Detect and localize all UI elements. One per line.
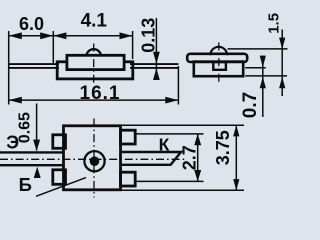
dome weld bump (side view) bbox=[86, 49, 101, 55]
package body (end view) bbox=[194, 62, 243, 77]
wire: right lead top edge bbox=[130, 63, 178, 65]
arrow 3.75 up bbox=[233, 125, 239, 136]
wire: left lead top edge bbox=[9, 63, 59, 65]
crystal circle outer bbox=[84, 151, 104, 171]
arrow 6.0 left bbox=[9, 32, 22, 39]
arrow 16.1 right bbox=[165, 97, 178, 104]
wire: right lead bottom edge bbox=[130, 67, 178, 69]
center line horizontal (top view) bbox=[0, 158, 186, 160]
extension line body bottom (y=75.9) bbox=[245, 75, 287, 77]
arrow 3.75 down bbox=[233, 179, 239, 190]
svg-text:3.75: 3.75 bbox=[213, 130, 233, 165]
dimension line 0.7 vertical (x=261.7) bbox=[262, 56, 264, 118]
package body lower rect (side view) bbox=[57, 62, 133, 79]
package lid upper rect (side view) bbox=[67, 55, 124, 69]
extension line right of 4.1 (x=132.6) bbox=[132, 31, 134, 59]
center line vertical (side view) bbox=[93, 44, 95, 86]
svg-text:0.13: 0.13 bbox=[139, 18, 159, 53]
dimension line 0.13 vertical bbox=[155, 18, 157, 80]
dome weld bump (end view) bbox=[210, 47, 227, 55]
svg-text:0.7: 0.7 bbox=[240, 92, 261, 118]
dimension line 0.65 upper bbox=[36, 104, 38, 151]
left tab lower bbox=[53, 170, 66, 185]
arrow 0.65 down bbox=[33, 140, 40, 151]
arrow 0.7 down bbox=[260, 56, 266, 68]
wire: left lead bottom edge bbox=[9, 67, 59, 69]
extension line tabs top (y=133) bbox=[135, 133, 204, 135]
lid plate (end view) bbox=[187, 54, 247, 62]
arrow 1.5 down bbox=[279, 38, 285, 50]
arrow 2.7 up bbox=[194, 134, 201, 145]
extension line left (x=8.7) bbox=[8, 31, 10, 105]
extension line dome top (y=48.9) bbox=[228, 48, 288, 50]
svg-text:К: К bbox=[159, 134, 170, 154]
emitter lead bottom edge bbox=[0, 164, 64, 166]
svg-text:6.0: 6.0 bbox=[19, 14, 44, 34]
svg-text:Б: Б bbox=[19, 174, 32, 195]
arrow 6.0 right bbox=[40, 32, 53, 39]
arrow 0.7 up bbox=[260, 77, 266, 89]
arrow 16.1 left bbox=[9, 97, 22, 104]
extension line body bottom (y=190.3) bbox=[121, 189, 244, 191]
svg-text:1.5: 1.5 bbox=[266, 13, 283, 34]
svg-text:0.65: 0.65 bbox=[17, 112, 34, 143]
collector lead outline bbox=[121, 152, 182, 165]
center line vertical (top view) bbox=[93, 119, 95, 198]
svg-text:4.1: 4.1 bbox=[81, 11, 108, 32]
dimension line 3.75 vertical bbox=[235, 125, 237, 190]
svg-text:2.7: 2.7 bbox=[180, 145, 200, 170]
arrow 0.13 up bbox=[153, 68, 160, 80]
arrow 4.1 left bbox=[53, 32, 66, 39]
dimension line 1.5 vertical (x=283.6) bbox=[281, 30, 283, 97]
crystal circle inner dot bbox=[90, 156, 100, 166]
center line vertical (end view) bbox=[218, 43, 220, 85]
arrow 2.7 down bbox=[194, 170, 201, 181]
extension line right lead end (x=178.4) bbox=[177, 66, 179, 105]
left tab upper bbox=[53, 135, 66, 149]
dimension line 2.7 vertical bbox=[197, 134, 199, 182]
package body (top view) bbox=[64, 126, 121, 190]
center tab under lid (end view) bbox=[213, 62, 226, 70]
arrow 1.5 up bbox=[279, 77, 285, 89]
extension line middle (x=53.3) bbox=[52, 31, 54, 64]
dimension line 16.1 (y=100.1) bbox=[9, 99, 179, 101]
arrow 0.13 down bbox=[153, 52, 160, 64]
arrow 0.65 up bbox=[34, 167, 41, 178]
arrow 4.1 right bbox=[120, 32, 133, 39]
svg-text:16.1: 16.1 bbox=[80, 83, 121, 104]
right tab upper bbox=[121, 130, 136, 144]
extension line body top (y=125.3) bbox=[121, 124, 244, 126]
leader line from label B bbox=[36, 178, 86, 197]
right tab lower bbox=[121, 172, 136, 186]
extension line tabs bottom (y=181.4) bbox=[136, 180, 204, 182]
dimension line 6.0 and 4.1 (y=35.8) bbox=[9, 35, 133, 37]
emitter lead top edge bbox=[0, 151, 64, 153]
extension line lead level (y=67.1) bbox=[245, 67, 266, 69]
